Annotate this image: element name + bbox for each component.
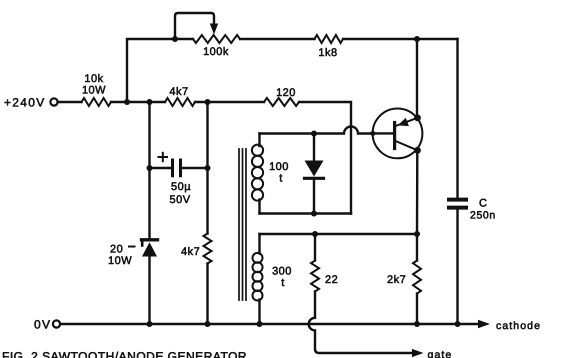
terminal 0V: [53, 320, 60, 327]
wire emitter to top rail: [416, 39, 418, 118]
svg-text:C: C: [479, 198, 487, 210]
label 300 t: [272, 266, 292, 290]
resistor R4 120: [264, 98, 299, 106]
label C 250n: [470, 198, 496, 222]
label 1k8: [318, 47, 337, 59]
node: 0V zener junction: [147, 321, 153, 327]
svg-text:FIG. 2 SAWTOOTH/ANODE GENERATO: FIG. 2 SAWTOOTH/ANODE GENERATOR: [2, 350, 247, 358]
svg-text:20: 20: [110, 244, 123, 256]
svg-text:50V: 50V: [169, 194, 190, 206]
node: 0V 300t junction: [257, 321, 263, 327]
node: rail/22 junction: [312, 231, 318, 237]
transformer core: [239, 149, 246, 300]
label +240V: [4, 96, 46, 110]
wire capacitor bottom: [456, 210, 458, 324]
node: 4k7 output junction: [205, 99, 211, 105]
label 100 t: [269, 161, 289, 185]
wire collector down: [416, 150, 419, 260]
node: top rail / emitter branch: [414, 36, 420, 42]
svg-text:10W: 10W: [82, 85, 106, 97]
wire 100t top lead to base with hop: [260, 127, 373, 134]
svg-text:+240V: +240V: [4, 96, 46, 110]
node: emitter: [414, 114, 421, 121]
svg-text:cathode: cathode: [496, 320, 541, 332]
svg-text:300: 300: [272, 266, 292, 278]
resistor R5 4k7 vertical: [204, 234, 212, 264]
inductor L2 secondary 300t: [253, 234, 263, 324]
svg-text:100: 100: [269, 161, 289, 173]
svg-text:gate: gate: [428, 349, 453, 358]
svg-text:0V: 0V: [34, 318, 51, 332]
cathode arrow: [478, 320, 490, 329]
wiper loop wire of potentiometer: [175, 13, 214, 39]
node: left bus junction: [124, 99, 130, 105]
svg-text:1k8: 1k8: [318, 47, 337, 59]
node: capacitor left: [147, 165, 153, 171]
wire top rail right corner down to capacitor: [456, 39, 458, 198]
label gate: [428, 349, 453, 358]
node: 0V 2k7 junction: [414, 321, 420, 327]
svg-text:50µ: 50µ: [171, 181, 191, 193]
label 120: [276, 87, 296, 99]
terminal +240V: [50, 98, 57, 105]
svg-text:10W: 10W: [108, 255, 132, 267]
label 10k 10W: [82, 73, 106, 97]
potentiometer VR1 100k: [193, 35, 240, 43]
capacitor C2 250n: [449, 200, 466, 208]
resistor R7 2k7: [413, 261, 421, 325]
diode D2: [305, 134, 324, 214]
label 50u 50V: [169, 181, 191, 206]
wire right shunt branch: [206, 102, 208, 324]
wire 100t bottom lead: [260, 212, 352, 214]
svg-text:22: 22: [325, 274, 338, 286]
label 20 10W: [108, 244, 135, 268]
svg-text:4k7: 4k7: [181, 246, 200, 258]
node: capacitor right: [205, 165, 211, 171]
wire 22 to gate with hop over 0V: [309, 292, 412, 354]
gate arrow: [412, 349, 424, 357]
svg-text:250n: 250n: [470, 210, 496, 222]
label 4k7: [181, 246, 200, 258]
svg-text:2k7: 2k7: [387, 274, 406, 286]
inductor L1 primary 100t: [252, 134, 263, 214]
node: 0V 4k7 junction: [205, 321, 211, 327]
label 4k7: [169, 86, 188, 98]
resistor R2 1k8: [315, 35, 344, 43]
node: base: [370, 131, 375, 136]
resistor R6 22: [311, 234, 319, 292]
node: 0V capacitor junction: [455, 321, 461, 327]
node: rail/collector junction: [414, 231, 420, 237]
wire gate rail: [260, 233, 418, 235]
resistor R3 4k7 horizontal: [165, 98, 195, 106]
label 0V: [34, 318, 51, 332]
polarity plus sign: [159, 153, 168, 161]
label 2k7: [387, 274, 406, 286]
svg-text:100k: 100k: [203, 46, 229, 58]
capacitor C1 50u 50V: [150, 160, 208, 176]
svg-text:10k: 10k: [84, 73, 103, 85]
node: capacitor branch junction: [147, 99, 153, 105]
wire left shunt branch: [148, 102, 150, 324]
resistor R1 10k 10W: [82, 98, 112, 106]
svg-text:120: 120: [276, 87, 296, 99]
node: pot left junction: [172, 36, 178, 42]
wiper arrow: [210, 24, 218, 35]
svg-text:4k7: 4k7: [169, 86, 188, 98]
node: collector: [414, 147, 421, 154]
label 22: [325, 274, 338, 286]
caption clipped at bottom: [2, 350, 247, 358]
node: diode top: [311, 131, 317, 137]
wire top rail: [127, 39, 458, 102]
transistor Q1: [373, 108, 423, 158]
node: diode bottom: [311, 211, 317, 217]
label cathode: [496, 320, 541, 332]
wire +240V rail: [58, 102, 351, 214]
wire 0V cathode rail: [60, 323, 477, 325]
svg-text:t: t: [281, 277, 285, 289]
zener diode D1 20V 10W: [142, 240, 158, 257]
svg-text:t: t: [279, 173, 283, 185]
label 100k: [203, 46, 229, 58]
